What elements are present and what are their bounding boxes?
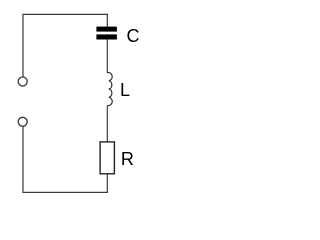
terminal node (bottom, open circle) [18, 117, 27, 126]
svg-text:R: R [121, 149, 134, 169]
capacitor C plate top [96, 27, 117, 32]
resistor R body [100, 142, 114, 174]
svg-text:L: L [120, 80, 130, 100]
wire inductor to resistor [106, 106, 108, 142]
wire bottom horizontal [22, 191, 108, 193]
wire right upper vertical (top node to capacitor) [106, 14, 108, 27]
wire capacitor to inductor [106, 40, 108, 74]
capacitor C plate bottom [96, 34, 117, 39]
wire resistor to bottom node [106, 174, 108, 193]
inductor L coil [107, 73, 112, 106]
wire top-left vertical segment [22, 14, 24, 76]
wire bottom-left vertical segment [22, 126, 24, 192]
wire top horizontal [22, 13, 108, 15]
svg-text:C: C [127, 26, 140, 46]
terminal node (top, open circle) [18, 77, 27, 86]
